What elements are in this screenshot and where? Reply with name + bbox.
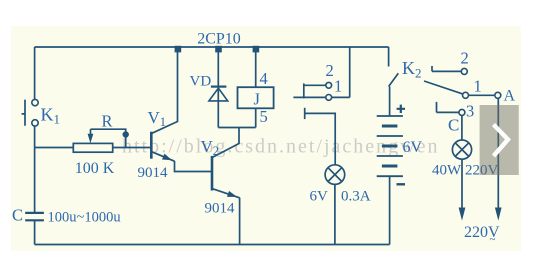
wire V2 emitter drop [239, 198, 241, 245]
transistor V2 [212, 156, 240, 198]
transistor V2 emitter arrow [227, 191, 237, 197]
wire contact3 to 40W lamp [461, 115, 463, 140]
svg-text:C: C [448, 116, 459, 135]
svg-text:1: 1 [334, 77, 342, 96]
junction dot on top rail (relay) [253, 46, 260, 53]
contact 2 bracket [432, 66, 461, 71]
wire V1 emitter to V2 base [175, 161, 212, 172]
battery 6V [377, 116, 403, 176]
wire lamp lead [305, 113, 336, 165]
wire K1 to capacitor [34, 126, 36, 212]
junction dot on top rail (diode) [215, 46, 222, 53]
svg-text:2: 2 [461, 49, 469, 68]
scan background [11, 26, 521, 251]
wire lamp lead tbar [304, 108, 306, 119]
transistor V1 emitter arrow [162, 154, 172, 161]
wire top rail [35, 46, 389, 48]
svg-text:5: 5 [260, 107, 268, 126]
wire battery minus drop [389, 176, 391, 244]
lamp 6V 0.3A [325, 165, 345, 185]
capacitor C plates [25, 213, 44, 220]
wire base branch to R [35, 147, 74, 149]
svg-text:4: 4 [260, 69, 268, 88]
svg-text:0.3A: 0.3A [341, 189, 371, 205]
wire diode branch [217, 47, 219, 128]
wire below 6V lamp [334, 184, 336, 244]
wire contact1 to node A [469, 94, 495, 96]
wire relay contact upper lead [304, 84, 326, 86]
switch K2 main: blade [389, 73, 399, 86]
svg-text:100 K: 100 K [75, 160, 115, 177]
wire relay contact tbar [303, 83, 305, 98]
viewer chevron [494, 125, 509, 157]
svg-text:3: 3 [466, 102, 474, 121]
svg-text:6V: 6V [403, 139, 423, 156]
svg-text:~: ~ [490, 234, 496, 246]
wire V2 collector riser [212, 128, 239, 158]
arrow 40W branch [459, 208, 466, 221]
wire blade to battery [389, 87, 391, 116]
wire below 40W lamp [461, 159, 463, 209]
resistor wiper arrow [90, 129, 92, 135]
wire relay contact common lead [293, 96, 325, 98]
node A [495, 92, 501, 98]
resistor wiper bracket [91, 129, 126, 147]
resistor R body [73, 143, 112, 152]
svg-text:C: C [12, 206, 23, 225]
svg-text:9014: 9014 [205, 201, 236, 217]
svg-text:2: 2 [326, 61, 334, 80]
arrow node A branch [495, 208, 502, 221]
wire R to V1 base [113, 147, 151, 149]
wire V1 collector riser [152, 47, 178, 133]
svg-text:R: R [102, 112, 113, 131]
wire relay pin5 [255, 109, 257, 128]
wire relay pin4 [255, 47, 257, 87]
svg-text:J: J [254, 90, 261, 109]
wire contact1 to riser [332, 96, 350, 98]
relay contact circles 2 and 1 [326, 82, 332, 100]
switch K2 arm [424, 81, 463, 94]
wire contact1 riser to top rail [349, 47, 351, 97]
switch K2 contact circles [459, 68, 501, 115]
switch K1 actuator [22, 100, 25, 126]
lamp 40W 220V [452, 140, 471, 159]
svg-text:9014: 9014 [138, 165, 169, 181]
wire bottom rail [35, 244, 390, 246]
switch K2 main: top terminal [388, 47, 390, 67]
wire node A drop [497, 98, 499, 209]
wire relay/diode bottom connector [218, 127, 255, 129]
svg-text:2CP10: 2CP10 [197, 30, 241, 47]
svg-text:40W: 40W [432, 163, 462, 179]
switch K1 [32, 99, 38, 126]
relay coil J box [238, 87, 274, 108]
svg-text:100u~1000u: 100u~1000u [48, 210, 121, 226]
junction dot on top rail (V1 collector) [175, 46, 182, 53]
diode VD [211, 85, 227, 87]
svg-text:1: 1 [474, 77, 482, 96]
label - battery [397, 183, 406, 185]
transistor V1 [151, 132, 174, 162]
wire left drop to K1 [34, 47, 36, 99]
wire below capacitor [34, 220, 36, 244]
svg-text:VD: VD [190, 74, 212, 90]
gray viewer overlay box [480, 105, 519, 175]
svg-text:A: A [504, 88, 516, 105]
junction dot wiper [123, 131, 129, 137]
label + battery [397, 105, 405, 113]
svg-text:6V: 6V [310, 189, 329, 205]
contact 3 bracket [437, 102, 459, 113]
